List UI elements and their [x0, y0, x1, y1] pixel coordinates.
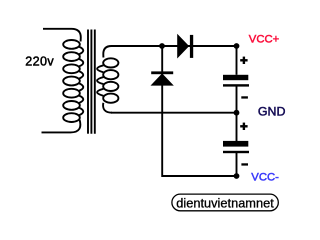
- junction VCC+ node: [234, 43, 240, 49]
- capacitor C2 plate +: [223, 141, 248, 147]
- junction node A: [159, 43, 165, 49]
- wire primary top lead: [43, 29, 81, 42]
- junction GND node: [234, 110, 240, 116]
- capacitor C2 lead bottom: [236, 153, 238, 176]
- transformer core: [88, 30, 95, 134]
- inductor T1 secondary winding: [97, 58, 118, 102]
- capacitor C1 lead top: [236, 46, 238, 75]
- wire GND rail: [111, 112, 237, 114]
- capacitor C1 lead bottom: [236, 86, 238, 112]
- svg-text:VCC-: VCC-: [251, 172, 279, 184]
- wire primary bottom lead: [42, 120, 81, 133]
- diode D1: [178, 35, 189, 57]
- capacitor C2 lead top: [236, 113, 238, 142]
- capacitor C1 polarity -: [241, 96, 248, 98]
- svg-text:GND: GND: [258, 104, 286, 118]
- diode D2: [151, 71, 173, 74]
- wire secondary top lead / node A to D1 to VCC+ rail: [103, 46, 236, 58]
- wire secondary bottom lead: [103, 103, 112, 113]
- wire node A down through D2 and right to VCC- node: [162, 46, 236, 176]
- capacitor C1 polarity +: [240, 59, 247, 61]
- svg-text:dientuvietnamnet: dientuvietnamnet: [176, 196, 274, 211]
- capacitor C1 plate +: [223, 75, 248, 80]
- svg-text:220v: 220v: [25, 55, 54, 69]
- capacitor C2 polarity -: [241, 163, 248, 165]
- watermark badge dientuvietnamnet: [172, 194, 278, 211]
- capacitor C2 polarity +: [240, 125, 247, 127]
- svg-text:VCC+: VCC+: [249, 34, 280, 46]
- inductor T1 primary winding: [63, 40, 83, 122]
- junction VCC- node: [234, 173, 240, 179]
